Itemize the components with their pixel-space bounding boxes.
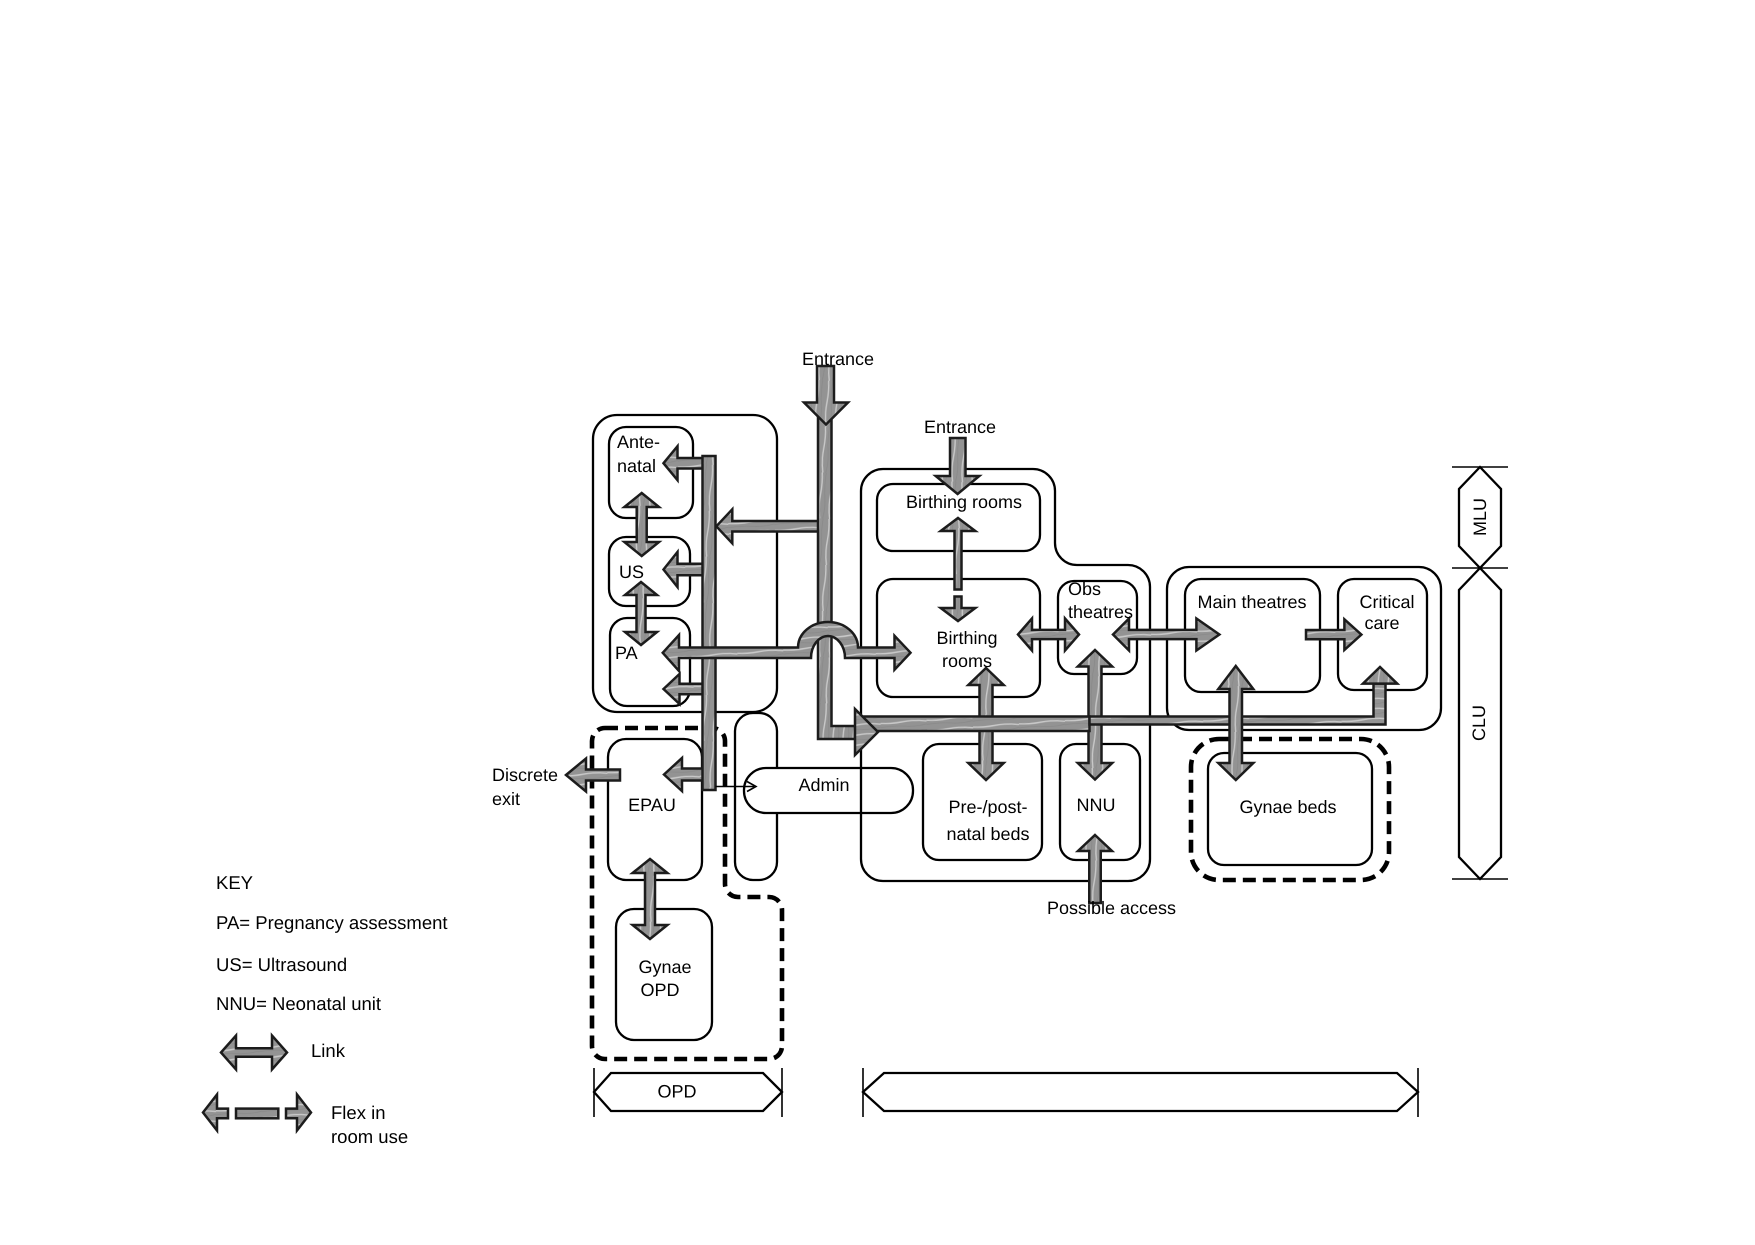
wire: main corridor horizontal bar (860, 717, 1090, 732)
box Critical care (1338, 579, 1427, 690)
svg-text:Admin: Admin (798, 775, 849, 795)
svg-text:Possible access: Possible access (1047, 898, 1176, 918)
box Main theatres (1185, 579, 1320, 692)
svg-text:Birthing: Birthing (936, 628, 997, 648)
bracket: OPD (594, 1073, 782, 1111)
arrow: link into Ante-natal (664, 446, 713, 480)
arrow: link into EPAU (664, 758, 714, 791)
arrow: MLU birthing to CLU birthing (down) (941, 597, 976, 622)
arrow: Birthing rooms / Obs theatres link (1018, 619, 1079, 651)
svg-text:Obs: Obs (1068, 579, 1101, 599)
svg-text:Flex in: Flex in (331, 1102, 386, 1123)
svg-text:Critical: Critical (1359, 592, 1414, 612)
corridor box below clinic (735, 713, 777, 880)
svg-text:KEY: KEY (216, 872, 253, 893)
svg-text:US= Ultrasound: US= Ultrasound (216, 954, 347, 975)
svg-text:MLU: MLU (1470, 498, 1490, 536)
svg-text:CLU: CLU (1469, 705, 1489, 741)
box Pre-/post-natal beds (923, 744, 1042, 860)
svg-text:NNU= Neonatal unit: NNU= Neonatal unit (216, 993, 381, 1014)
arrow: Main theatres / Gynae beds link (1218, 666, 1253, 780)
svg-text:theatres: theatres (1068, 602, 1133, 622)
arrow: MLU birthing to CLU birthing (up) (941, 518, 976, 590)
svg-text:PA: PA (615, 643, 638, 663)
svg-text:rooms: rooms (942, 651, 992, 671)
arrow: possible access into NNU (1078, 835, 1112, 903)
group: MLU/CLU middle block (notched outline) (861, 469, 1150, 881)
wire: entrance corridor vertical bar (818, 412, 855, 739)
arrow: US / PA link (625, 582, 657, 645)
svg-text:Discrete: Discrete (492, 765, 558, 785)
box US (609, 537, 690, 606)
svg-text:care: care (1364, 613, 1399, 633)
box Gynae beds (1208, 753, 1372, 865)
arrow: corridor head up into Critical care (1363, 667, 1397, 684)
box EPAU (608, 739, 702, 880)
box PA (610, 618, 690, 706)
svg-text:Entrance: Entrance (924, 417, 996, 437)
box Ante-natal (609, 427, 693, 518)
svg-text:Gynae: Gynae (638, 957, 691, 977)
svg-text:Main theatres: Main theatres (1197, 592, 1306, 612)
box Gynae OPD (616, 909, 712, 1040)
group: theatres block (1167, 567, 1441, 730)
bracket: long CLU span (863, 1073, 1418, 1111)
wire: clinic link vertical bar (703, 456, 716, 790)
svg-text:NNU: NNU (1077, 795, 1116, 815)
arrow: link into US (664, 552, 713, 587)
arrow: Obs theatres / NNU link (1078, 650, 1112, 780)
arrow: Obs theatres / Main theatres link (1113, 619, 1219, 651)
svg-text:Entrance: Entrance (802, 349, 874, 369)
svg-text:Ante-: Ante- (617, 432, 660, 452)
arrow: thin EPAU to Admin (716, 786, 755, 788)
svg-text:natal: natal (617, 456, 656, 476)
svg-text:Birthing rooms: Birthing rooms (906, 492, 1022, 512)
svg-text:OPD: OPD (640, 980, 679, 1000)
bracket: MLU (1459, 467, 1501, 568)
box Obs theatres (1058, 581, 1137, 674)
bracket ticks (1452, 467, 1508, 879)
arrow: entrance 2 (into MLU birthing rooms) (936, 438, 980, 494)
svg-text:Pre-/post-: Pre-/post- (948, 797, 1027, 817)
svg-text:Link: Link (311, 1040, 346, 1061)
key symbol: Link arrow (221, 1036, 287, 1070)
dashed zone: EPAU + Gynae OPD (OPD zone) (592, 728, 782, 1059)
box NNU (1060, 744, 1140, 860)
arrow: entrance 1 (down into site) (804, 366, 848, 425)
arrow: corridor head into CLU zone (855, 709, 878, 755)
svg-text:exit: exit (492, 789, 520, 809)
arrow: link into PA (664, 674, 713, 704)
bracket: CLU (1459, 568, 1501, 879)
box Birthing rooms (CLU) (877, 579, 1040, 697)
box Birthing rooms (MLU) (877, 484, 1040, 551)
arrow: Main theatres to Critical care (1306, 619, 1361, 650)
box Admin (744, 768, 913, 813)
arrow: discrete exit from EPAU (566, 759, 620, 792)
svg-text:EPAU: EPAU (628, 795, 676, 815)
svg-text:room use: room use (331, 1126, 408, 1147)
arrow: Birthing rooms / Pre-post natal beds link (968, 668, 1003, 780)
svg-text:natal beds: natal beds (946, 824, 1029, 844)
group: antenatal clinic outer box (593, 415, 777, 712)
arrow: EPAU / Gynae OPD link (633, 859, 668, 939)
svg-text:OPD: OPD (657, 1082, 696, 1102)
dashed zone: Gynae beds (1191, 739, 1389, 880)
svg-text:US: US (619, 562, 644, 582)
svg-text:PA= Pregnancy assessment: PA= Pregnancy assessment (216, 912, 448, 933)
arrow: corridor to antenatal clinic (left) (716, 509, 826, 543)
arrow: PA to Birthing rooms (bridge over corridor) (663, 622, 911, 671)
arrow: Ante-natal / US link (624, 493, 659, 556)
key symbol: Flex arrow (dashed) (203, 1095, 228, 1131)
wire: main corridor thin segment (1090, 684, 1386, 725)
svg-text:Gynae beds: Gynae beds (1239, 797, 1336, 817)
